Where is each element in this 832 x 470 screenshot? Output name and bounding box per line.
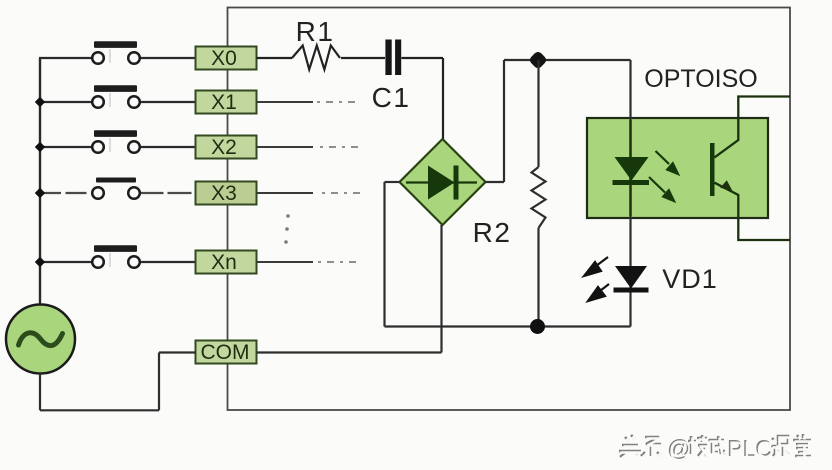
svg-text:R1: R1 bbox=[296, 16, 335, 47]
svg-text:X3: X3 bbox=[211, 182, 237, 205]
svg-text:X0: X0 bbox=[211, 47, 237, 70]
svg-text:VD1: VD1 bbox=[662, 264, 718, 294]
svg-text:X1: X1 bbox=[211, 91, 237, 114]
svg-text:Xn: Xn bbox=[211, 251, 237, 274]
svg-text:OPTOISO: OPTOISO bbox=[644, 65, 757, 93]
svg-text:C1: C1 bbox=[372, 82, 411, 113]
svg-text:R2: R2 bbox=[473, 217, 512, 248]
svg-text:X2: X2 bbox=[211, 136, 237, 159]
svg-text:COM: COM bbox=[201, 341, 250, 364]
